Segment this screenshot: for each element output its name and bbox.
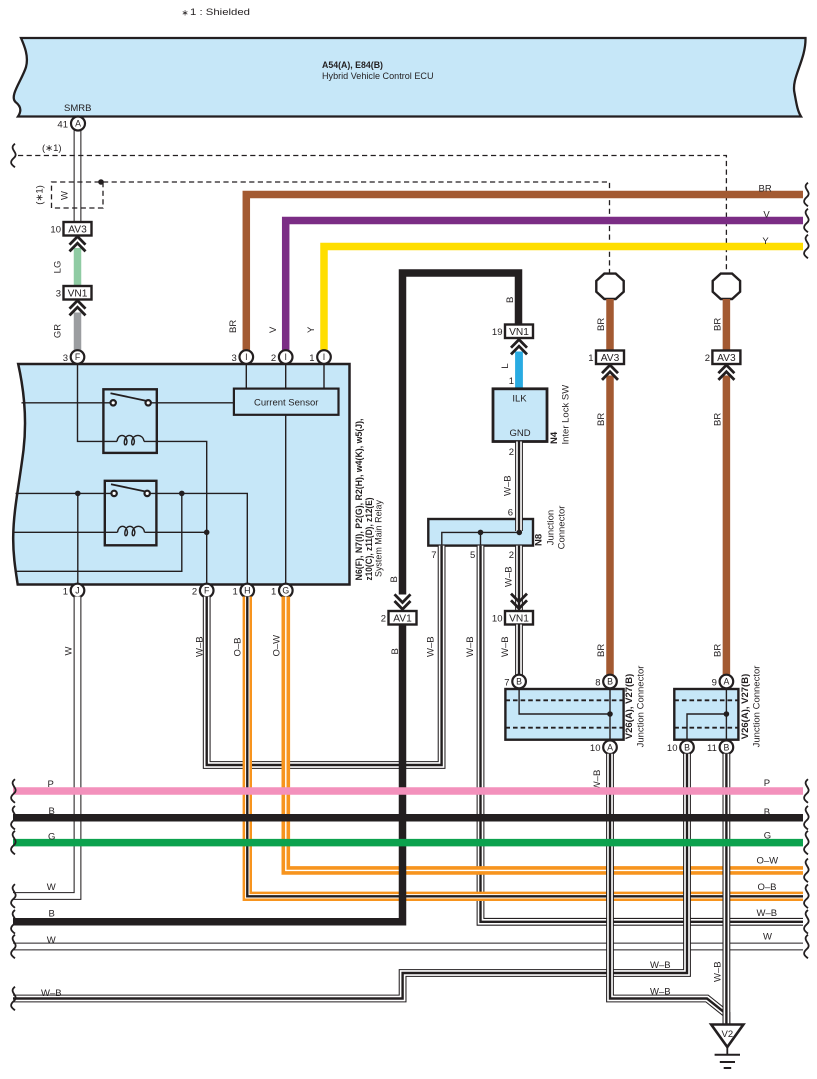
svg-text:F: F — [75, 352, 81, 362]
svg-text:(∗1): (∗1) — [42, 143, 62, 154]
svg-text:P: P — [764, 778, 770, 789]
svg-text:Junction Connector: Junction Connector — [752, 666, 763, 748]
svg-text:B: B — [516, 677, 522, 687]
svg-text:10: 10 — [492, 613, 503, 624]
svg-text:O–W: O–W — [272, 635, 283, 657]
svg-text:B: B — [389, 576, 400, 582]
svg-text:VN1: VN1 — [509, 613, 529, 624]
svg-text:G: G — [48, 832, 55, 843]
svg-text:W–B: W–B — [41, 988, 62, 999]
svg-text:10: 10 — [590, 743, 601, 754]
svg-text:P: P — [48, 779, 54, 790]
svg-text:B: B — [723, 742, 729, 752]
svg-text:B: B — [607, 677, 613, 687]
svg-text:W–B: W–B — [500, 636, 511, 657]
svg-text:1: 1 — [233, 587, 238, 598]
svg-text:A: A — [75, 119, 81, 129]
svg-text:∗: ∗ — [182, 7, 189, 17]
svg-text:J: J — [75, 586, 79, 596]
svg-text:7: 7 — [504, 678, 509, 689]
svg-text:W–B: W–B — [503, 475, 514, 496]
svg-text:W–B: W–B — [504, 566, 515, 587]
svg-text:(∗1): (∗1) — [35, 185, 46, 205]
svg-text:SMRB: SMRB — [64, 103, 91, 114]
svg-text:Y: Y — [306, 326, 317, 333]
svg-text:N8: N8 — [534, 534, 545, 546]
svg-text:O–B: O–B — [233, 637, 244, 656]
svg-text:BR: BR — [596, 644, 607, 657]
svg-text:3: 3 — [63, 353, 68, 364]
svg-text:1: 1 — [509, 376, 514, 387]
svg-text:1: 1 — [271, 587, 276, 598]
svg-text:W–B: W–B — [195, 636, 206, 657]
svg-text:H: H — [244, 586, 250, 596]
svg-text:B: B — [49, 806, 55, 817]
svg-text:V2: V2 — [721, 1029, 733, 1040]
svg-text:W: W — [64, 647, 75, 656]
svg-text:BR: BR — [713, 644, 724, 657]
svg-text:G: G — [764, 831, 771, 842]
svg-text:19: 19 — [492, 327, 503, 338]
svg-text:V: V — [763, 209, 770, 220]
svg-text:AV3: AV3 — [68, 224, 87, 235]
svg-text:System Main Relay: System Main Relay — [374, 500, 385, 577]
svg-text:Junction: Junction — [546, 510, 557, 545]
svg-text:1 : Shielded: 1 : Shielded — [190, 7, 250, 18]
svg-text:1: 1 — [588, 353, 593, 364]
svg-text:B: B — [764, 807, 770, 818]
svg-text:W: W — [763, 932, 772, 943]
svg-text:LG: LG — [53, 261, 64, 274]
svg-text:2: 2 — [271, 353, 276, 364]
svg-text:Hybrid Vehicle Control ECU: Hybrid Vehicle Control ECU — [322, 71, 434, 82]
svg-text:W–B: W–B — [650, 987, 671, 998]
svg-text:GND: GND — [509, 428, 530, 439]
svg-text:11: 11 — [707, 743, 717, 754]
svg-text:F: F — [204, 586, 210, 596]
svg-text:O–W: O–W — [757, 856, 779, 867]
svg-text:41: 41 — [57, 120, 68, 131]
svg-text:A: A — [607, 742, 613, 752]
svg-text:V26(A), V27(B): V26(A), V27(B) — [624, 674, 635, 739]
svg-text:V: V — [268, 326, 279, 333]
svg-text:I: I — [323, 352, 325, 362]
svg-text:BR: BR — [228, 320, 239, 333]
svg-text:2: 2 — [381, 613, 386, 624]
svg-text:W–B: W–B — [592, 770, 603, 791]
svg-text:2: 2 — [509, 550, 514, 561]
svg-text:A: A — [723, 677, 729, 687]
svg-text:W–B: W–B — [426, 636, 437, 657]
svg-text:BR: BR — [596, 413, 607, 426]
svg-text:B: B — [49, 909, 55, 920]
svg-text:L: L — [500, 363, 511, 368]
svg-text:W: W — [47, 935, 56, 946]
svg-text:5: 5 — [470, 550, 475, 561]
svg-text:V26(A), V27(B): V26(A), V27(B) — [740, 674, 751, 739]
svg-text:Inter Lock SW: Inter Lock SW — [561, 385, 572, 445]
svg-text:Current Sensor: Current Sensor — [254, 397, 318, 408]
svg-text:W–B: W–B — [757, 908, 778, 919]
svg-text:9: 9 — [712, 678, 717, 689]
svg-text:W–B: W–B — [650, 960, 671, 971]
svg-text:W: W — [60, 191, 71, 200]
svg-text:G: G — [282, 586, 289, 596]
svg-text:AV1: AV1 — [393, 613, 412, 624]
svg-text:BR: BR — [596, 318, 607, 331]
svg-text:2: 2 — [705, 353, 710, 364]
svg-text:I: I — [284, 352, 286, 362]
svg-text:AV3: AV3 — [717, 353, 736, 364]
svg-text:VN1: VN1 — [68, 288, 88, 299]
svg-text:AV3: AV3 — [601, 353, 620, 364]
svg-text:1: 1 — [63, 587, 68, 598]
svg-text:BR: BR — [759, 184, 772, 195]
svg-text:ILK: ILK — [512, 394, 527, 405]
svg-text:2: 2 — [509, 447, 514, 458]
svg-text:10: 10 — [667, 743, 678, 754]
svg-text:3: 3 — [232, 353, 237, 364]
svg-text:8: 8 — [595, 678, 600, 689]
svg-text:Junction Connector: Junction Connector — [636, 666, 647, 748]
svg-text:W–B: W–B — [465, 636, 476, 657]
svg-text:Connector: Connector — [557, 506, 568, 550]
svg-text:Y: Y — [762, 236, 769, 247]
svg-text:3: 3 — [56, 288, 61, 299]
svg-text:7: 7 — [431, 550, 436, 561]
svg-text:O–B: O–B — [758, 882, 777, 893]
svg-text:6: 6 — [508, 508, 513, 519]
svg-text:GR: GR — [53, 324, 64, 338]
svg-text:B: B — [684, 742, 690, 752]
svg-text:10: 10 — [50, 224, 61, 235]
svg-text:VN1: VN1 — [509, 327, 529, 338]
svg-text:2: 2 — [192, 587, 197, 598]
svg-text:W: W — [47, 882, 56, 893]
svg-text:W–B: W–B — [713, 961, 724, 982]
svg-text:BR: BR — [713, 413, 724, 426]
svg-text:1: 1 — [309, 353, 314, 364]
svg-text:A54(A), E84(B): A54(A), E84(B) — [322, 60, 383, 71]
svg-text:N4: N4 — [549, 431, 560, 444]
svg-text:B: B — [505, 297, 516, 303]
svg-text:I: I — [245, 352, 247, 362]
svg-text:BR: BR — [713, 318, 724, 331]
